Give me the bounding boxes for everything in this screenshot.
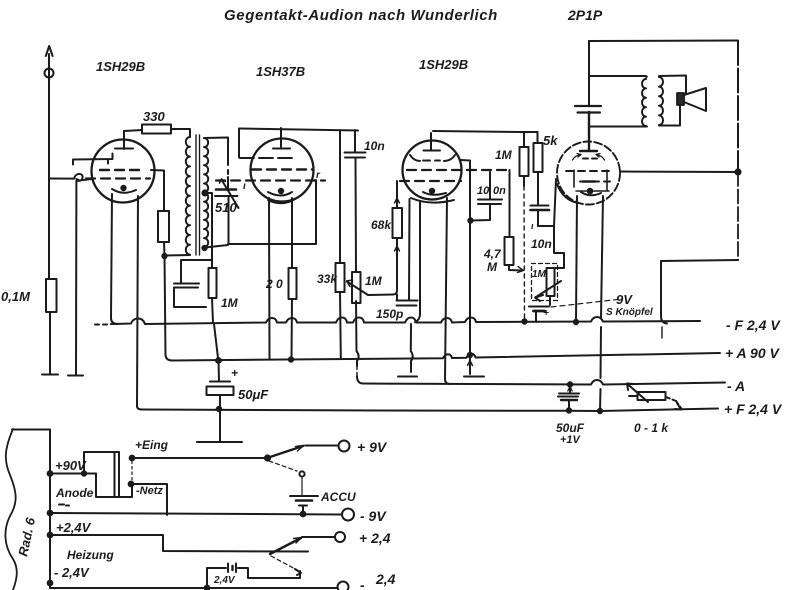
svg-text:+: + bbox=[231, 366, 238, 380]
wire column to +A rail bbox=[165, 256, 173, 361]
svg-text:9V: 9V bbox=[616, 292, 633, 307]
wire 1M to 50uF column bbox=[214, 324, 218, 358]
svg-text:+ F 2,4 V: + F 2,4 V bbox=[724, 401, 783, 417]
capacitor 10n bbox=[345, 130, 385, 271]
node secondary bottom bbox=[202, 246, 206, 250]
potentiometer 1M (in dashed box) bbox=[532, 264, 562, 306]
svg-text:- 2,4V: - 2,4V bbox=[54, 565, 90, 580]
svg-text:+ A 90 V: + A 90 V bbox=[725, 345, 780, 361]
svg-text:1SH37B: 1SH37B bbox=[256, 64, 305, 79]
resistor 1M (below 10n) bbox=[352, 272, 383, 384]
switch frame (double line) bbox=[115, 452, 120, 497]
wire V1 filament lead bbox=[137, 196, 142, 410]
svg-text:4,7: 4,7 bbox=[483, 247, 502, 261]
svg-text:50uF: 50uF bbox=[556, 421, 585, 435]
svg-text:2,4V: 2,4V bbox=[213, 575, 236, 586]
svg-text:2 0: 2 0 bbox=[265, 277, 283, 291]
note 9V Sknoepfel bbox=[551, 292, 653, 318]
node -Netz bbox=[129, 482, 134, 487]
node junction bbox=[162, 254, 166, 258]
transformer output secondary bbox=[659, 77, 663, 125]
capacitor tone (anode) bbox=[575, 41, 601, 150]
wire V3 right column with end bar bbox=[469, 161, 471, 375]
rail -F 2,4V (top) bbox=[95, 324, 107, 326]
wire V2 top cap corner bbox=[238, 129, 240, 158]
svg-text:5k: 5k bbox=[543, 133, 558, 148]
svg-text:-: - bbox=[360, 577, 365, 590]
wire V4 filament lead 2 bbox=[600, 196, 603, 411]
svg-text:+90V: +90V bbox=[55, 458, 87, 473]
switch 1 bbox=[265, 455, 270, 460]
svg-text:- 9V: - 9V bbox=[360, 508, 387, 524]
wire +2,4V row bbox=[50, 535, 308, 552]
svg-text:0n: 0n bbox=[493, 185, 506, 197]
wire V2 filament lead bbox=[291, 198, 293, 268]
wire +90V row bbox=[50, 452, 119, 474]
wire V3 grid right bbox=[461, 159, 470, 162]
wire V1 cathode lead bbox=[111, 194, 117, 324]
wire cap bottom to secondary bottom bbox=[205, 245, 228, 248]
wire -9V row bbox=[50, 513, 342, 515]
tube V3 bbox=[400, 133, 509, 203]
battery ACCU bbox=[290, 477, 356, 513]
svg-text:68k: 68k bbox=[371, 218, 392, 232]
wire V2 cathode lead bbox=[268, 198, 271, 360]
capacitor 50uF (second) bbox=[556, 385, 585, 447]
wire tap to grid network bbox=[205, 193, 212, 260]
wire secondary top to tuning cap bbox=[204, 138, 228, 190]
wire bottom bus bbox=[12, 430, 50, 589]
capacitor 100n bbox=[468, 172, 506, 223]
wire -2,4V row bbox=[50, 587, 337, 589]
terminal bar bbox=[398, 376, 417, 378]
resistor V1 screen (vertical) bbox=[158, 211, 169, 256]
svg-text:50μF: 50μF bbox=[238, 387, 269, 402]
speaker bbox=[659, 76, 706, 126]
svg-text:330: 330 bbox=[143, 109, 165, 124]
wire V4 filament lead 1 bbox=[576, 196, 577, 322]
svg-text:1M: 1M bbox=[221, 296, 239, 310]
capacitor 50uF (main filter) bbox=[197, 361, 269, 443]
svg-text:510: 510 bbox=[215, 200, 237, 215]
svg-text:Gegentakt-Audion nach Wunderli: Gegentakt-Audion nach Wunderlich bbox=[224, 7, 498, 24]
wire top rail output bbox=[589, 40, 738, 43]
svg-text:+ 2,4: + 2,4 bbox=[359, 530, 391, 546]
svg-text:ACCU: ACCU bbox=[320, 490, 356, 504]
transformer output primary bbox=[589, 76, 647, 127]
node bias junction bbox=[522, 319, 526, 323]
resistor 33k (potentiometer) bbox=[317, 131, 368, 358]
svg-text:ι: ι bbox=[531, 221, 534, 231]
svg-text:0,1M: 0,1M bbox=[1, 289, 31, 304]
svg-text:2,4: 2,4 bbox=[375, 571, 396, 587]
transformer primary coil bbox=[186, 137, 190, 255]
svg-text:r: r bbox=[316, 170, 321, 181]
wire antenna to grid V1 bbox=[73, 154, 113, 165]
resistor 5k bbox=[534, 132, 559, 204]
resistor 4,7M bbox=[483, 170, 524, 274]
resistor 68k bbox=[368, 181, 402, 295]
battery 2,4V (box) bbox=[207, 564, 300, 589]
capacitor grid (V2) bbox=[174, 260, 212, 307]
svg-text:0 - 1 k: 0 - 1 k bbox=[634, 421, 669, 435]
potentiometer 0-1k bbox=[627, 384, 681, 436]
wire V3 lead to +A bbox=[408, 199, 411, 300]
node coil tap bbox=[202, 190, 207, 195]
capacitor 150p bbox=[376, 295, 418, 322]
resistor 20 bbox=[265, 268, 297, 362]
svg-text:1M: 1M bbox=[532, 269, 547, 280]
svg-text:10n: 10n bbox=[364, 139, 385, 153]
tube V4 2P1P bbox=[557, 112, 620, 205]
svg-text:+1V: +1V bbox=[560, 434, 582, 446]
wire V4 grid column bbox=[552, 179, 564, 268]
node grid terminal bbox=[50, 174, 93, 181]
svg-text:+2,4V: +2,4V bbox=[56, 520, 92, 535]
resistor 330 bbox=[124, 109, 190, 137]
wavy paper edge bbox=[5, 429, 16, 590]
svg-text:Anode: Anode bbox=[55, 486, 94, 500]
svg-text:+ 9V: + 9V bbox=[357, 439, 388, 455]
svg-text:ι: ι bbox=[243, 181, 246, 192]
wire V3 lead to -A rail bbox=[445, 198, 450, 384]
svg-text:S Knöpfel: S Knöpfel bbox=[606, 307, 653, 318]
wire screen loop bbox=[228, 180, 316, 244]
tube V1 bbox=[86, 131, 155, 203]
svg-text:+: + bbox=[543, 308, 549, 319]
arrow on V3 column bbox=[468, 361, 473, 366]
terminal bar (V3 column) bbox=[464, 376, 484, 378]
battery grid bias bbox=[529, 307, 549, 323]
svg-text:- F 2,4 V: - F 2,4 V bbox=[726, 317, 781, 333]
capacitor 10n coupling bbox=[531, 206, 555, 252]
svg-text:Rad. 6: Rad. 6 bbox=[15, 516, 38, 558]
svg-text:150p: 150p bbox=[376, 307, 403, 321]
svg-text:1SH29B: 1SH29B bbox=[419, 57, 468, 72]
wire right vertical bbox=[737, 41, 739, 172]
svg-text:1M: 1M bbox=[365, 274, 383, 288]
wire 1M column to -A rail bbox=[356, 367, 358, 376]
node +Eing bbox=[130, 456, 135, 461]
rail -A bbox=[363, 380, 725, 385]
wire to switch 1 bbox=[132, 457, 267, 459]
wire top rail +A bbox=[239, 129, 358, 131]
svg-text:33k: 33k bbox=[317, 272, 338, 286]
svg-text:- A: - A bbox=[727, 378, 745, 394]
capacitor 510 (variable, tuning) bbox=[215, 179, 239, 244]
antenna bbox=[42, 46, 58, 375]
tube V2 bbox=[216, 128, 325, 203]
wire V4 anode right bbox=[620, 171, 738, 174]
svg-text:1M: 1M bbox=[495, 148, 513, 162]
svg-text:10: 10 bbox=[477, 185, 490, 197]
resistor 0,1M bbox=[1, 279, 57, 312]
rail +F 2,4V (bottom) bbox=[142, 409, 718, 412]
rail +A 90V bbox=[172, 353, 720, 361]
transformer core bbox=[196, 135, 200, 255]
wire junction to transformer bbox=[165, 254, 191, 257]
wire V3 cathode below rail bbox=[411, 324, 413, 372]
svg-text:Heizung: Heizung bbox=[67, 548, 114, 562]
wire V1 plate right bbox=[151, 170, 164, 211]
wire overshoot tick bbox=[661, 327, 663, 338]
wire terminal column bbox=[75, 181, 77, 375]
svg-text:1SH29B: 1SH29B bbox=[96, 59, 145, 74]
switch 2 bbox=[270, 538, 301, 554]
resistor 1M (V4 grid upper) bbox=[495, 132, 529, 320]
svg-text:+Eing: +Eing bbox=[135, 438, 169, 452]
resistor 1M grid leak bbox=[209, 260, 239, 323]
svg-text:M: M bbox=[487, 260, 498, 274]
wire V3 cathode lead bbox=[415, 201, 420, 322]
svg-text:-Netz: -Netz bbox=[136, 485, 163, 497]
svg-text:10n: 10n bbox=[531, 237, 552, 251]
svg-text:2P1P: 2P1P bbox=[567, 7, 603, 23]
transformer secondary coil bbox=[204, 138, 208, 247]
